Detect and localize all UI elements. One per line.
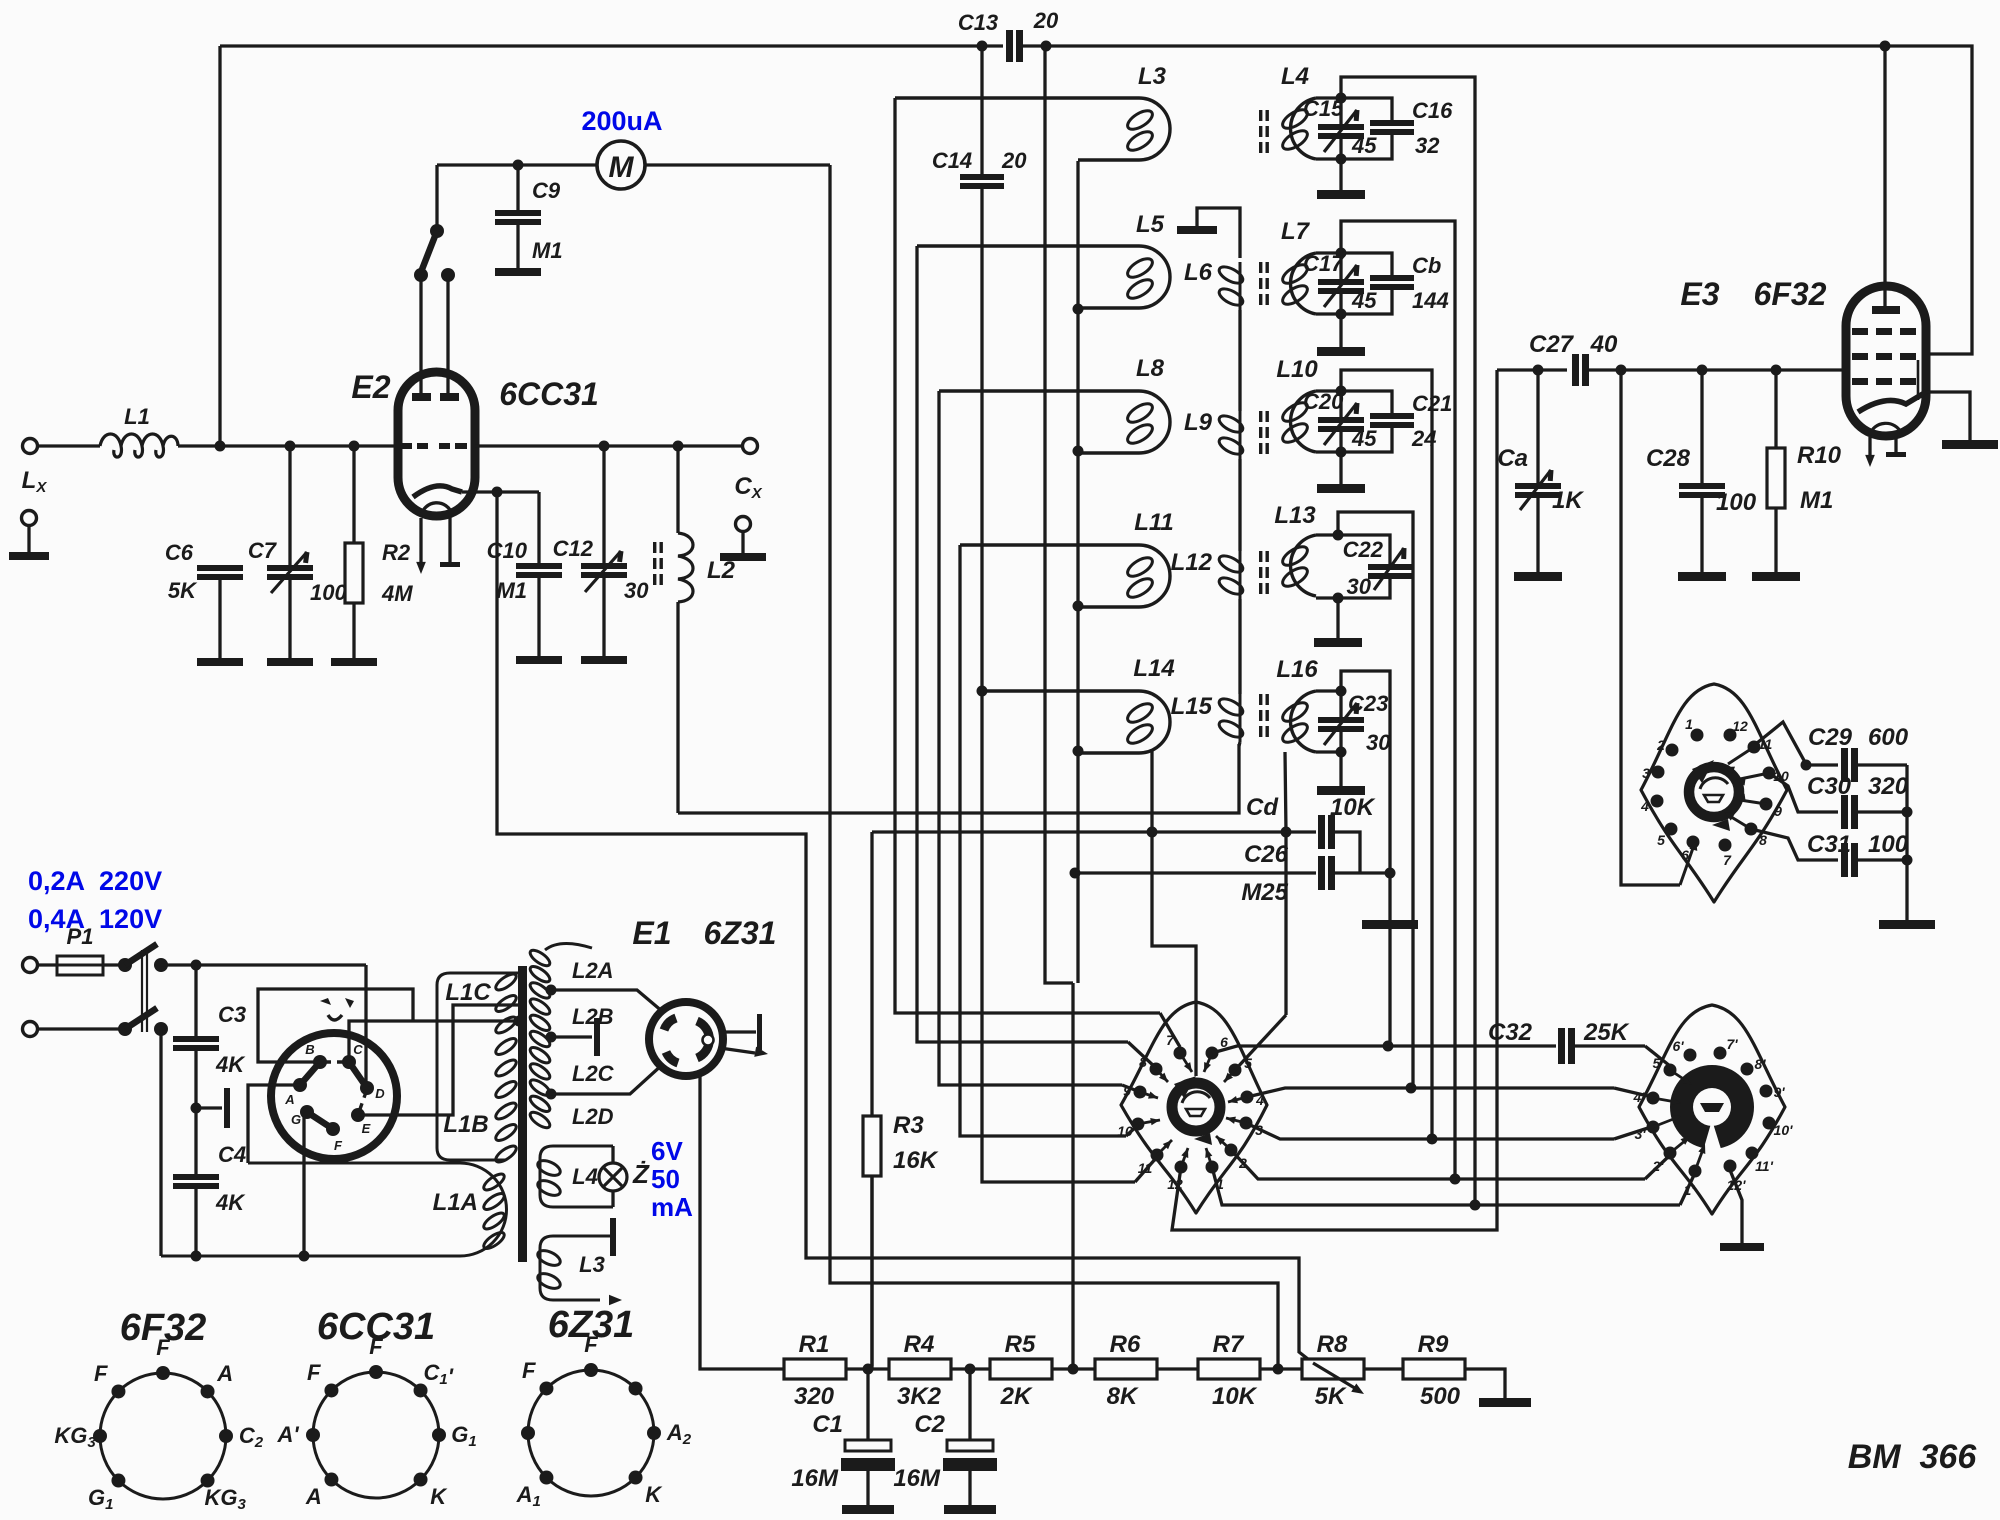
socket S1 pin 8 <box>1150 1063 1163 1076</box>
transformer tap L2C <box>546 1089 557 1100</box>
inductor L12 <box>1239 551 1242 599</box>
svg-text:8: 8 <box>1759 832 1767 848</box>
socket S1 pin 12 <box>1175 1161 1188 1174</box>
node R1/R4 C1 <box>863 1364 874 1375</box>
node L4 bottom <box>1336 154 1347 165</box>
svg-text:A': A' <box>276 1422 299 1447</box>
capacitor C29 <box>1806 763 1838 766</box>
svg-text:100: 100 <box>1716 489 1757 516</box>
svg-text:R9: R9 <box>1418 1331 1449 1358</box>
wire R6-R7 <box>1157 1367 1198 1370</box>
svg-text:40: 40 <box>1590 331 1618 358</box>
node C29 left <box>1801 760 1812 771</box>
node C13 junction <box>1041 41 1052 52</box>
tube E3 leads <box>1868 437 1871 455</box>
wire switch to E2 anode a <box>419 277 422 393</box>
svg-text:M25: M25 <box>1241 879 1288 906</box>
wire L5 bottom drop <box>1076 309 1079 451</box>
svg-text:9: 9 <box>1774 803 1782 819</box>
socket S2 pin 8' <box>1741 1063 1754 1076</box>
node C26 right <box>1385 868 1396 879</box>
pinout 6Z31 <box>528 1370 654 1496</box>
node R5/R6 <box>1068 1364 1079 1375</box>
svg-text:45: 45 <box>1351 133 1377 158</box>
switch mains coupling <box>142 950 147 1032</box>
node C31 right <box>1902 855 1913 866</box>
transformer secondary winding L2A-L2D <box>528 947 552 968</box>
capacitor C20 trimmer <box>1339 391 1342 417</box>
svg-text:M1: M1 <box>496 578 527 603</box>
capacitor C4 <box>194 1108 197 1174</box>
socket S1 pin 6 <box>1206 1047 1219 1060</box>
wire switch upper out <box>161 963 366 966</box>
core L4 dashes <box>1259 110 1262 121</box>
wire R4-R5 <box>951 1367 990 1370</box>
socket S1 pin 2 <box>1225 1144 1238 1157</box>
svg-text:C7: C7 <box>248 538 278 563</box>
pinout 6F32 <box>100 1373 226 1499</box>
socket S2 pin 1' arrow <box>1695 1152 1702 1171</box>
inductor L8 <box>939 391 1170 453</box>
socket S1 pin 9 <box>1134 1086 1147 1099</box>
svg-text:R5: R5 <box>1005 1331 1036 1358</box>
socket S1 pin 4 arrow <box>1228 1097 1247 1102</box>
svg-text:20: 20 <box>1033 8 1059 33</box>
svg-text:10K: 10K <box>1330 794 1376 821</box>
svg-text:8': 8' <box>1754 1056 1766 1072</box>
capacitor C13 <box>1006 30 1013 62</box>
svg-text:R8: R8 <box>1317 1331 1348 1358</box>
tube E3 cathode <box>1858 392 1926 412</box>
capacitor C1 <box>866 1369 869 1440</box>
wire hub drop <box>1152 832 1196 1076</box>
wire S1 pin10 feed <box>1126 1125 1138 1136</box>
svg-text:L8: L8 <box>1136 355 1165 382</box>
capacitor C26 <box>1075 871 1316 874</box>
svg-text:C32: C32 <box>1488 1019 1533 1046</box>
socket oscillator pin 8 arrow <box>1728 815 1751 829</box>
tube E3 top cap <box>1872 306 1900 314</box>
wire pin1 to S2 <box>1475 1203 1680 1206</box>
svg-text:6': 6' <box>1672 1038 1684 1054</box>
socket oscillator pin 10 <box>1763 767 1776 780</box>
capacitor Cd <box>1152 830 1316 833</box>
svg-text:C22: C22 <box>1343 537 1384 562</box>
svg-text:12: 12 <box>1732 718 1748 734</box>
wire S1 pin1 out <box>1212 1167 1475 1205</box>
inductor L11 <box>960 545 1170 607</box>
wire L9-L12 link <box>1238 459 1241 551</box>
node E2 cathode junction <box>492 487 503 498</box>
lamp Z 6V 50mA <box>599 1163 627 1191</box>
resistor R6 <box>1095 1359 1157 1379</box>
inductor L4 <box>1291 98 1316 159</box>
socket oscillator pin 4 <box>1651 795 1664 808</box>
socket S1 pin 6 arrow <box>1204 1053 1212 1072</box>
socket S2 pin 9' <box>1760 1085 1773 1098</box>
socket oscillator pin 9 <box>1760 798 1773 811</box>
wire pin2 to S2 <box>1455 1177 1645 1180</box>
socket oscillator coil outline <box>1641 684 1787 902</box>
svg-text:C13: C13 <box>958 10 998 35</box>
node C7 tap <box>285 441 296 452</box>
ground L16 <box>1339 752 1342 786</box>
wire coil chain to R5/R6 <box>1071 983 1074 1369</box>
wire S1 pin3 out <box>1246 1123 1432 1139</box>
fuse P1 <box>57 956 103 975</box>
inductor L5 <box>917 246 1170 308</box>
socket S1 pin 1 <box>1206 1161 1219 1174</box>
tube E2 anode plates <box>412 393 431 401</box>
wire lower pole down <box>159 1029 162 1256</box>
node L10 top <box>1336 386 1347 397</box>
wire L15 bottom link <box>1239 742 1240 746</box>
transformer core <box>518 966 527 1262</box>
node C3 tap <box>191 960 202 971</box>
svg-text:Cb: Cb <box>1412 253 1441 278</box>
tube E1 heater tap <box>723 1030 756 1033</box>
svg-text:144: 144 <box>1412 288 1449 313</box>
wire selector E link <box>358 1005 519 1115</box>
socket oscillator pin 7 <box>1719 839 1732 852</box>
socket oscillator pin 11 arrow <box>1728 747 1754 764</box>
svg-text:45: 45 <box>1351 426 1377 451</box>
svg-text:6CC31: 6CC31 <box>499 376 599 412</box>
svg-text:F: F <box>156 1335 170 1360</box>
wire S1 pin4 out <box>1247 1088 1411 1097</box>
ground E3 cathode <box>1926 392 1970 440</box>
svg-text:C4: C4 <box>218 1142 246 1167</box>
socket oscillator pin 9 arrow <box>1740 800 1766 804</box>
socket S2 pin 7' <box>1714 1047 1727 1060</box>
ground Cx terminal <box>736 517 751 532</box>
socket S2 pin 10' <box>1763 1117 1776 1130</box>
wire E3 grid line <box>1497 368 1567 371</box>
svg-text:L16: L16 <box>1276 656 1318 683</box>
wire S1 pin12 grid <box>1172 370 1497 1230</box>
capacitor C12 trimmer <box>602 446 605 563</box>
wire E1 cathode drop <box>700 1074 784 1369</box>
node C32 bus <box>1383 1041 1394 1052</box>
socket S1 hub <box>1172 1083 1220 1131</box>
ground R9 <box>1465 1369 1505 1398</box>
socket oscillator pin 5 <box>1665 823 1678 836</box>
wire switch drop <box>435 165 438 228</box>
node L14 top tap <box>977 686 988 697</box>
svg-text:30: 30 <box>624 578 649 603</box>
inductor L7 <box>1291 253 1316 314</box>
socket oscillator pin 8 <box>1745 823 1758 836</box>
svg-text:E1: E1 <box>632 915 671 951</box>
svg-text:Cd: Cd <box>1246 794 1279 821</box>
bus L10 feedback <box>1341 370 1432 1139</box>
svg-text:C6: C6 <box>165 540 194 565</box>
svg-text:320: 320 <box>1868 773 1909 800</box>
switch S1 arm <box>430 224 444 238</box>
node pin3 bus <box>1427 1134 1438 1145</box>
svg-text:5: 5 <box>1657 832 1665 848</box>
svg-text:F: F <box>584 1332 598 1357</box>
transformer tap L2A <box>546 985 557 996</box>
node C30 right <box>1902 807 1913 818</box>
svg-text:25K: 25K <box>1583 1019 1630 1046</box>
svg-text:R10: R10 <box>1797 442 1842 469</box>
wire S1 pin9 feed <box>1122 1085 1140 1092</box>
svg-text:320: 320 <box>794 1383 835 1410</box>
ground C26 <box>1362 920 1418 929</box>
svg-text:G: G <box>291 1112 301 1127</box>
capacitor C15 trimmer <box>1339 98 1342 124</box>
svg-text:L14: L14 <box>1133 655 1174 682</box>
resistor R10 <box>1774 370 1777 448</box>
node C28 tap <box>1697 365 1708 376</box>
resistor R4 <box>889 1359 951 1379</box>
node L13 bottom <box>1333 593 1344 604</box>
wire selector G down <box>302 1117 305 1256</box>
node primary tap <box>514 1016 525 1027</box>
svg-text:A: A <box>216 1361 233 1386</box>
wire L8 bottom drop <box>1076 451 1079 606</box>
transformer winding L3 <box>540 1236 613 1300</box>
wire top rail <box>220 44 1003 47</box>
bus L8 vertical <box>939 391 1122 1085</box>
socket S2 pin 4' <box>1647 1092 1660 1105</box>
capacitor C23 trimmer <box>1339 691 1342 717</box>
terminal mains upper <box>23 958 38 973</box>
capacitor C28 <box>1700 370 1703 483</box>
svg-text:mA: mA <box>651 1192 693 1222</box>
core L13 dashes <box>1259 551 1262 562</box>
inductor L3 <box>895 98 1170 160</box>
svg-text:R4: R4 <box>904 1331 935 1358</box>
switch selector contact A <box>293 1078 307 1092</box>
wire L3 bottom drop <box>1076 161 1079 309</box>
capacitor Cb <box>1341 253 1392 275</box>
node L11 bottom <box>1073 601 1084 612</box>
tube E3 grid dashes <box>1852 328 1868 335</box>
socket S2 pin 5' arrow <box>1670 1070 1688 1082</box>
socket S1 pin 4 <box>1241 1091 1254 1104</box>
wire C32 to pin5' <box>1645 1046 1670 1066</box>
ground L4 <box>1339 159 1342 190</box>
capacitor C9 <box>516 165 519 210</box>
tube E1 output arrow <box>720 1048 755 1053</box>
wire chain jog <box>1045 46 1073 983</box>
wire L2 to coil chain <box>678 744 1239 813</box>
tube E2 cathode <box>413 486 462 497</box>
wire to L2 and Cx <box>604 444 743 447</box>
svg-text:100: 100 <box>310 580 347 605</box>
svg-text:8K: 8K <box>1107 1383 1139 1410</box>
svg-text:6Z31: 6Z31 <box>704 915 777 951</box>
wire E3 top cap lead <box>1883 46 1886 306</box>
svg-text:20: 20 <box>1001 148 1027 173</box>
resistor R1 <box>784 1359 846 1379</box>
bus L11 vertical <box>960 545 1126 1136</box>
svg-text:C14: C14 <box>932 148 972 173</box>
svg-text:K: K <box>645 1482 663 1507</box>
inductor L13 <box>1291 535 1316 596</box>
switch selector arm G-F <box>307 1112 333 1129</box>
wire selector A to L1A <box>248 1085 300 1163</box>
wire pin3 to S2 <box>1432 1137 1614 1140</box>
svg-text:32: 32 <box>1415 133 1440 158</box>
node R2 tap <box>349 441 360 452</box>
resistor R9 <box>1403 1359 1465 1379</box>
svg-text:30: 30 <box>1366 730 1391 755</box>
socket S2 pin 12' <box>1724 1160 1737 1173</box>
wire S1 pin2 out <box>1231 1150 1455 1179</box>
wire E2 to C10/C12 <box>475 444 604 447</box>
ground Lx terminal <box>22 511 37 526</box>
node R10 tap <box>1771 365 1782 376</box>
switch selector dash B-C <box>324 1060 345 1063</box>
svg-text:5K: 5K <box>168 578 198 603</box>
wire to E3 plate corner <box>1885 46 1972 354</box>
wire cathode drop long <box>497 492 1313 1363</box>
svg-text:45: 45 <box>1351 288 1377 313</box>
socket S1 pin 3 <box>1240 1117 1253 1130</box>
svg-text:B: B <box>305 1042 314 1057</box>
terminal Lx input <box>23 439 38 454</box>
inductor L2 <box>676 446 679 533</box>
svg-text:C28: C28 <box>1646 445 1691 472</box>
svg-text:L6: L6 <box>1184 259 1213 286</box>
wire R3 bottom <box>870 1176 873 1369</box>
svg-text:L5: L5 <box>1136 211 1165 238</box>
svg-text:F: F <box>307 1360 321 1385</box>
svg-text:3K2: 3K2 <box>897 1383 942 1410</box>
svg-text:L12: L12 <box>1171 549 1213 576</box>
socket S2 pin 5' <box>1664 1064 1677 1077</box>
wire R3 vertical <box>870 832 873 1116</box>
node L14 bottom <box>1073 746 1084 757</box>
svg-text:4K: 4K <box>215 1052 246 1077</box>
node L7 bottom <box>1336 309 1347 320</box>
ground S2 pin12' <box>1730 1170 1742 1243</box>
svg-text:L9: L9 <box>1184 409 1213 436</box>
wire L6-L9 link <box>1238 310 1241 411</box>
capacitor C16 <box>1341 98 1392 120</box>
node Cd wire junction <box>1147 827 1158 838</box>
wire L16 left drop <box>1285 752 1286 1015</box>
bus L4 feedback <box>1341 77 1475 1205</box>
svg-text:C: C <box>353 1042 363 1057</box>
ground L10 <box>1339 452 1342 484</box>
terminal Cx <box>743 439 758 454</box>
svg-text:L4: L4 <box>1281 63 1309 90</box>
socket S2 pin 3' <box>1647 1121 1660 1134</box>
node osc feed tap <box>1616 365 1627 376</box>
socket oscillator pin 12 <box>1724 729 1737 742</box>
socket S1 pin 1 arrow <box>1206 1148 1212 1167</box>
switch selector contact D <box>360 1081 374 1095</box>
ground L7 <box>1339 314 1342 347</box>
node C6 tap <box>215 441 226 452</box>
switch mains upper pole <box>118 958 132 972</box>
bus C14 vertical upper <box>980 46 983 174</box>
svg-text:L15: L15 <box>1171 693 1213 720</box>
wire S1 pin8 feed <box>1128 1042 1156 1068</box>
socket S1 pin 7 arrow <box>1180 1053 1192 1072</box>
wire C29 bus right <box>1905 765 1908 920</box>
node R7/R8 <box>1273 1364 1284 1375</box>
pinout 6CC31 <box>313 1372 439 1498</box>
node L10 bottom <box>1336 447 1347 458</box>
svg-text:7': 7' <box>1726 1036 1738 1052</box>
svg-text:9': 9' <box>1773 1084 1785 1100</box>
tube E2 grid dashes <box>399 443 412 449</box>
wire R3 top feed <box>872 830 1152 833</box>
socket S1 pin 2 arrow <box>1216 1136 1231 1150</box>
wire selector D feed <box>364 965 367 1082</box>
wire osc bracket to C29 <box>1757 722 1806 764</box>
node C12 tap <box>599 441 610 452</box>
socket S1 pin 3 arrow <box>1226 1118 1246 1123</box>
wire selector box B <box>258 989 413 1062</box>
switch selector index mark <box>320 998 354 1008</box>
ground L13 <box>1336 598 1339 638</box>
switch selector contact F <box>326 1122 340 1136</box>
capacitor C10 <box>537 492 540 563</box>
svg-text:R1: R1 <box>799 1331 830 1358</box>
svg-text:6V: 6V <box>651 1136 683 1166</box>
svg-text:L2B: L2B <box>572 1004 614 1029</box>
svg-text:L3: L3 <box>1138 63 1167 90</box>
socket oscillator pin 2 <box>1666 744 1679 757</box>
svg-text:10K: 10K <box>1212 1383 1258 1410</box>
svg-text:L11: L11 <box>1134 509 1174 536</box>
inductor L1 <box>100 434 178 457</box>
node L8 bottom <box>1073 446 1084 457</box>
svg-text:16K: 16K <box>893 1147 939 1174</box>
core L16 dashes <box>1259 694 1262 705</box>
node chassis tap <box>191 1103 202 1114</box>
svg-text:R2: R2 <box>382 540 411 565</box>
core L7 dashes <box>1259 262 1262 273</box>
wire L12-L15 link <box>1238 599 1241 694</box>
svg-text:M1: M1 <box>1800 487 1833 514</box>
svg-text:100: 100 <box>1868 831 1909 858</box>
svg-text:C12: C12 <box>553 536 594 561</box>
node L7 top <box>1336 248 1347 259</box>
svg-text:0,4A 120V: 0,4A 120V <box>28 904 162 934</box>
bus L13 feedback <box>1338 512 1413 1088</box>
svg-text:C30: C30 <box>1807 773 1852 800</box>
svg-text:200uA: 200uA <box>581 106 662 136</box>
socket S1 pin 5 <box>1229 1064 1242 1077</box>
switch selector contact G <box>300 1105 314 1119</box>
svg-text:F: F <box>522 1358 536 1383</box>
node E3 plate tap <box>1880 41 1891 52</box>
svg-text:L3: L3 <box>579 1252 605 1277</box>
svg-text:L2D: L2D <box>572 1104 614 1129</box>
socket S1 pin 9 arrow <box>1140 1092 1158 1098</box>
core L10 dashes <box>1259 411 1262 422</box>
wire y1139 to pin3' <box>1614 1128 1648 1139</box>
node C4 bottom rail <box>191 1251 202 1262</box>
svg-text:C3: C3 <box>218 1002 246 1027</box>
svg-text:E3: E3 <box>1680 276 1719 312</box>
svg-text:M1: M1 <box>532 238 563 263</box>
svg-text:1K: 1K <box>1552 487 1584 514</box>
svg-text:10': 10' <box>1774 1122 1794 1138</box>
node L4 top <box>1336 93 1347 104</box>
svg-text:4M: 4M <box>381 581 413 606</box>
svg-text:F: F <box>369 1334 383 1359</box>
wire meter line <box>437 163 518 166</box>
bus L16 feedback <box>1341 671 1390 1045</box>
